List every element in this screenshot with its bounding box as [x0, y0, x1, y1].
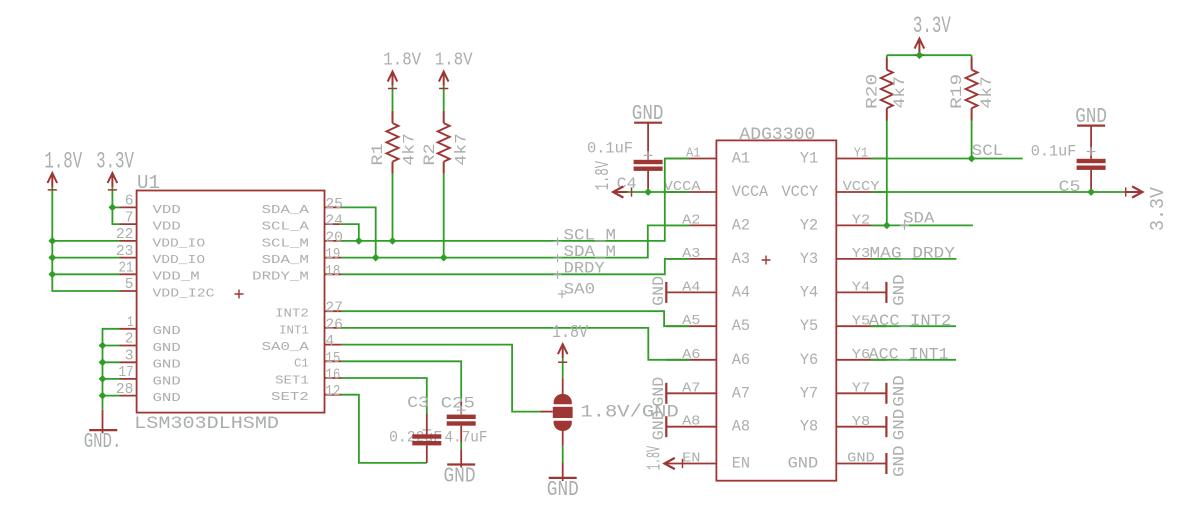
supply 3.3V arrow (top) [915, 39, 925, 53]
supply 3.3V label (left) [96, 149, 134, 175]
svg-text:A4: A4 [682, 279, 700, 295]
ground flag (A side) [665, 383, 667, 404]
U2 pin Y5 [800, 313, 887, 335]
wire INT2 to A5 [342, 311, 690, 326]
svg-text:A3: A3 [732, 250, 750, 268]
ground label (SJ) [547, 479, 579, 502]
U2 pin A2 [666, 212, 750, 234]
svg-text:GND: GND [891, 274, 909, 306]
wire R2 bottom [443, 174, 445, 258]
U1 pin 17 (GND) [119, 365, 181, 388]
C5 value 0.1uF [1031, 143, 1077, 161]
U1 value LSM303DLHSMD [134, 415, 279, 434]
ground flag label (Y side) [891, 375, 909, 407]
svg-text:15: 15 [325, 351, 340, 367]
svg-text:Y1: Y1 [800, 150, 818, 168]
R2 value 4k7 [452, 133, 470, 165]
svg-text:4: 4 [325, 334, 334, 350]
ground flag (Y side) [885, 383, 887, 404]
supply 1.8V label (SJ) [552, 323, 588, 343]
U2 origin cross [762, 256, 771, 265]
wire MAG_DRDY (Y3) [871, 258, 957, 260]
C3 label [407, 394, 429, 412]
svg-text:VDD_IO: VDD_IO [153, 236, 206, 250]
wire R19 top [971, 55, 973, 57]
svg-text:4k7: 4k7 [891, 76, 909, 108]
wire SCL_M [342, 159, 690, 241]
wire 1.8V rail [52, 187, 119, 291]
svg-text:VDD_M: VDD_M [153, 270, 200, 284]
junction GND/pin17 [99, 375, 107, 383]
svg-text:Y5: Y5 [800, 317, 818, 335]
U1 pin 24 (SCL_A) [262, 214, 344, 234]
C3 origin cross [422, 426, 431, 435]
supply 1.8V label (left) [44, 149, 82, 175]
R20 label [864, 74, 882, 109]
svg-text:GND: GND [153, 391, 181, 405]
label SDA_M origin cross [554, 254, 562, 262]
svg-text:GND.: GND. [84, 431, 122, 454]
svg-text:DRDY: DRDY [564, 259, 605, 277]
svg-text:1.8V: 1.8V [435, 50, 473, 70]
capacitor C4 [634, 123, 663, 192]
ground symbol (C5) [1077, 124, 1105, 126]
label SCL_M origin cross [554, 238, 562, 246]
label DRDY [564, 259, 605, 277]
U1 origin cross [235, 290, 244, 299]
R20 value 4k7 [891, 76, 909, 108]
U1 pin 3 (GND) [120, 349, 181, 372]
svg-text:27: 27 [325, 301, 343, 317]
wire SCL (Y1) [871, 158, 1023, 160]
svg-text:C5: C5 [1059, 178, 1081, 196]
ground flag (Y side) [885, 416, 887, 437]
svg-text:VDD_IO: VDD_IO [153, 253, 206, 267]
svg-text:ADG3300: ADG3300 [739, 126, 815, 145]
svg-text:DRDY_M: DRDY_M [252, 270, 309, 284]
svg-text:3.3V: 3.3V [96, 149, 134, 175]
R19 value 4k7 [978, 76, 996, 108]
U2 pin Y3 [800, 246, 887, 268]
svg-text:SDA_A: SDA_A [262, 203, 310, 217]
svg-text:Y8: Y8 [800, 418, 818, 436]
U2 pin Y6 [800, 347, 887, 369]
svg-text:19: 19 [325, 247, 340, 263]
label SDA [903, 210, 935, 228]
svg-text:LSM303DLHSMD: LSM303DLHSMD [134, 415, 279, 434]
U2 pin A5 [666, 313, 750, 335]
svg-text:ACC_INT2: ACC_INT2 [869, 312, 952, 330]
C4 label [617, 175, 637, 193]
svg-text:SCL: SCL [972, 142, 1003, 160]
junction 1.8V/pin22 [48, 237, 56, 245]
U1 pin 18 (DRDY_M) [252, 264, 341, 284]
wire R20 top [886, 55, 888, 57]
U1 pin 7 (VDD) [120, 210, 181, 233]
svg-text:17: 17 [119, 365, 134, 381]
svg-text:Y2: Y2 [852, 213, 870, 229]
svg-text:R2: R2 [421, 143, 439, 165]
svg-text:Y4: Y4 [800, 283, 818, 301]
svg-text:1: 1 [127, 315, 133, 331]
svg-text:A8: A8 [732, 418, 750, 436]
svg-text:1.8V: 1.8V [383, 50, 421, 70]
capacitor C3 [412, 414, 441, 463]
supply 1.8V arrow (SJ) [558, 344, 568, 358]
supply 3.3V label (top) [913, 13, 951, 39]
U2 pin VCCA [664, 179, 769, 201]
wire GND rail [103, 329, 120, 410]
svg-text:GND: GND [650, 276, 668, 306]
junction R1 [389, 237, 397, 245]
svg-text:Y3: Y3 [852, 246, 870, 262]
supply 1.8V label (R2) [435, 50, 473, 70]
svg-text:GND: GND [891, 375, 909, 407]
wire C1 to C25 [342, 361, 462, 402]
svg-text:SDA_M: SDA_M [262, 253, 309, 267]
ground label (C25) [444, 465, 476, 488]
svg-text:INT2: INT2 [275, 307, 309, 321]
svg-text:SA0_A: SA0_A [262, 340, 310, 354]
svg-text:C4: C4 [617, 175, 637, 193]
U2 pin A1 [666, 146, 750, 168]
svg-text:Y4: Y4 [852, 280, 870, 296]
svg-text:R1: R1 [369, 143, 387, 165]
svg-text:SCL_M: SCL_M [564, 227, 617, 245]
U2 pin Y2 [800, 213, 887, 235]
svg-text:GND: GND [547, 479, 579, 502]
svg-text:SET2: SET2 [271, 390, 309, 404]
wire SJ top [558, 358, 567, 397]
R19 label [948, 74, 966, 109]
U1 pin 26 (INT1) [279, 317, 343, 337]
svg-text:Y7: Y7 [800, 384, 818, 402]
ground flag (A side) [665, 416, 667, 437]
svg-text:25: 25 [325, 197, 343, 213]
U2 pin Y4 [800, 280, 887, 302]
U2 pin A8 [666, 414, 750, 436]
U2 pin Y7 [800, 380, 887, 402]
svg-text:6: 6 [125, 194, 134, 210]
svg-text:A7: A7 [682, 380, 700, 396]
U2 pin Y1 [800, 146, 887, 168]
svg-text:0.1uF: 0.1uF [587, 140, 633, 158]
svg-text:4k7: 4k7 [401, 133, 419, 165]
svg-text:R19: R19 [948, 74, 966, 109]
U2 name ADG3300 [739, 126, 815, 145]
svg-text:VCCY: VCCY [782, 183, 819, 201]
U2 pin A3 [666, 246, 750, 268]
wire VCCY [871, 187, 1126, 196]
svg-text:GND: GND [444, 465, 476, 488]
ground flag label (Y side) [891, 409, 909, 441]
wire SDA (Y2) [871, 224, 973, 226]
svg-text:2: 2 [125, 332, 134, 348]
svg-text:18: 18 [325, 264, 340, 280]
U2 pin A4 [666, 279, 750, 301]
wire DRDY [342, 259, 690, 274]
svg-text:R20: R20 [864, 74, 882, 109]
ground flag (A side) [665, 282, 667, 303]
C4 origin cross [644, 151, 653, 160]
ground flag label (Y side) [891, 446, 909, 478]
svg-text:1.8V: 1.8V [592, 161, 614, 191]
U1 pin 25 (SDA_A) [262, 197, 343, 217]
solder jumper SJ1 pad 1 [554, 394, 572, 404]
wire SET1 to C3 [342, 378, 427, 414]
junction 3.3V/pin6 [109, 204, 117, 212]
junction R19/SCL [968, 155, 976, 163]
ground symbol (C25) [447, 463, 475, 465]
svg-text:VCCA: VCCA [732, 183, 769, 201]
ground symbol (C4) [634, 122, 662, 124]
ground symbol (U1 left) [89, 410, 117, 433]
U1 pin 27 (INT2) [275, 301, 343, 321]
svg-text:26: 26 [325, 317, 343, 333]
svg-text:Y7: Y7 [852, 380, 870, 396]
label SDA origin cross [900, 221, 909, 230]
IC U1 box [137, 191, 325, 413]
wire ACC_INT2 (Y5) [871, 325, 957, 327]
svg-text:24: 24 [325, 214, 343, 230]
svg-text:GND: GND [153, 324, 181, 338]
C25 value 4.7uF [445, 429, 488, 447]
U2 pin A7 [666, 380, 750, 402]
svg-text:VDD: VDD [153, 220, 181, 234]
junction GND/pin3 [99, 358, 107, 366]
svg-text:Y8: Y8 [852, 414, 870, 430]
label SA0 [564, 281, 596, 299]
wire R1 bottom [392, 174, 394, 241]
wire INT1 to A6 [342, 328, 690, 360]
svg-text:EN: EN [732, 455, 750, 473]
C25 label [441, 394, 475, 412]
supply 1.8V arrow (VCCA) [613, 186, 627, 197]
U1 pin 22 (VDD_IO) [116, 227, 205, 250]
C3 value 0.22uF [389, 429, 442, 447]
label MAG_DRDY [870, 244, 956, 262]
svg-text:GND: GND [891, 446, 909, 478]
svg-text:Y5: Y5 [852, 313, 870, 329]
svg-text:A2: A2 [732, 216, 750, 234]
svg-text:SA0: SA0 [564, 281, 596, 299]
ground flag label (A side) [650, 410, 668, 440]
C25 origin cross [457, 406, 466, 415]
svg-text:MAG_DRDY: MAG_DRDY [870, 244, 956, 262]
R1 value 4k7 [401, 133, 419, 165]
supply 1.8V label (VCCA) [592, 161, 614, 191]
svg-text:4.7uF: 4.7uF [445, 429, 488, 447]
svg-text:A5: A5 [732, 317, 750, 335]
junction GND/pin28 [99, 392, 107, 400]
svg-text:Y2: Y2 [800, 216, 818, 234]
wire R2 top [439, 86, 448, 111]
svg-text:Y6: Y6 [852, 347, 870, 363]
U1 pin 4 (SA0_A) [262, 334, 342, 354]
junction 1.8V/pin21 [48, 270, 56, 278]
junction SCL_A/SCL_M [355, 237, 363, 245]
svg-text:VDD_I2C: VDD_I2C [153, 286, 215, 300]
label SCL_M [564, 227, 617, 245]
svg-text:5: 5 [125, 277, 134, 293]
junction R2 [440, 254, 448, 262]
U1 pin 23 (VDD_IO) [116, 244, 205, 267]
supply 1.8V arrow (left) [48, 173, 58, 187]
U1 pin 16 (SET1) [275, 368, 342, 388]
U2 pin A6 [666, 347, 750, 369]
svg-text:SCL_M: SCL_M [262, 236, 309, 250]
label ACC_INT1 [869, 346, 949, 364]
U1 pin 12 (SET2) [271, 384, 342, 404]
supply 1.8V tick (left) [48, 189, 57, 191]
svg-text:21: 21 [119, 261, 134, 277]
svg-text:20: 20 [325, 230, 343, 246]
R1 label [369, 143, 387, 165]
resistor R20 4k7 [881, 58, 893, 121]
svg-text:A8: A8 [682, 414, 700, 430]
junction 1.8V/pin23 [48, 254, 56, 262]
supply 3.3V tick (left) [108, 189, 117, 191]
wire SET2 to C3 bottom [342, 395, 427, 463]
U1 pin 2 (GND) [120, 332, 181, 355]
junction SDA_A/SDA_M [372, 254, 380, 262]
solder jumper SJ1 pad 3 [554, 421, 572, 431]
junction R20/SDA [883, 222, 891, 230]
capacitor C5 [1077, 126, 1106, 192]
U1 pin 21 (VDD_M) [119, 261, 200, 284]
ground flag label (A side) [650, 276, 668, 306]
U1 pin 20 (SCL_M) [262, 230, 343, 250]
wire R1 top [388, 86, 397, 111]
wire SJ bottom [562, 429, 564, 481]
label SA0 origin cross [558, 290, 566, 298]
label SDA_M [564, 243, 617, 261]
supply 3.3V arrow (left) [108, 173, 118, 187]
svg-text:ACC_INT1: ACC_INT1 [869, 346, 949, 364]
wire R19 bottom (SCL) [971, 121, 973, 159]
C5 origin cross [1087, 147, 1096, 156]
wire VCCA [628, 187, 690, 196]
C5 label [1059, 178, 1081, 196]
svg-text:Y1: Y1 [854, 146, 868, 162]
supply 1.8V label (R1) [383, 50, 421, 70]
R2 label [421, 143, 439, 165]
svg-text:EN: EN [682, 451, 700, 467]
junction C4/VCCA [644, 188, 652, 196]
wire SCL_A jog [342, 224, 359, 241]
ground symbol (SJ) [549, 477, 577, 479]
junction 3.3V tee [916, 51, 924, 59]
U1 pin 6 (VDD) [120, 194, 181, 217]
svg-text:Y3: Y3 [800, 250, 818, 268]
wire SA0_A to jumper [342, 345, 542, 412]
solder jumper SJ1 pad 2 (middle) [541, 407, 573, 418]
supply 1.8V arrow (R1) [388, 72, 398, 86]
svg-text:GND: GND [891, 409, 909, 441]
U2 pin EN [666, 451, 750, 473]
svg-text:Y6: Y6 [800, 351, 818, 369]
wire 3.3V rail [112, 187, 119, 224]
svg-text:A7: A7 [732, 384, 750, 402]
capacitor C25 [447, 402, 476, 468]
ground flag label (A side) [650, 377, 668, 407]
wire 3.3V tee [887, 53, 972, 56]
ground flag (Y side) [885, 282, 887, 303]
svg-text:4k7: 4k7 [452, 133, 470, 165]
svg-text:GND: GND [153, 358, 181, 372]
ground label (U1 left) [84, 431, 122, 454]
svg-text:A6: A6 [732, 351, 750, 369]
supply 1.8V arrow (R2) [439, 72, 449, 86]
svg-text:12: 12 [325, 384, 340, 400]
svg-text:GND: GND [847, 451, 875, 467]
U2 pin GND [788, 451, 887, 473]
U1 pin 19 (SDA_M) [262, 247, 342, 267]
supply 1.8V arrow (EN) [665, 458, 683, 469]
supply 3.3V label (VCCY) [1147, 187, 1169, 231]
SJ1 label 1.8V/GND [580, 402, 678, 422]
ground label (C4) [632, 103, 664, 126]
label SCL [972, 142, 1003, 160]
svg-text:GND: GND [153, 341, 181, 355]
svg-text:1.8V: 1.8V [644, 446, 666, 470]
label ACC_INT2 [869, 312, 952, 330]
resistor R2 4k7 [438, 111, 450, 174]
U1 reference label [137, 172, 160, 194]
svg-text:SCL_A: SCL_A [262, 220, 310, 234]
svg-text:1.8V: 1.8V [44, 149, 82, 175]
svg-text:VDD: VDD [153, 203, 181, 217]
svg-text:C3: C3 [407, 394, 429, 412]
ground label (C5) [1075, 106, 1107, 129]
svg-text:C1: C1 [294, 357, 309, 371]
wire SDA_A jog [342, 207, 376, 257]
ground flag label (Y side) [891, 274, 909, 306]
wire R20 bottom (SDA) [886, 121, 888, 226]
U1 pin 1 (GND) [120, 315, 181, 338]
U2 pin VCCY [782, 179, 887, 201]
U1 pin 28 (GND) [116, 382, 181, 405]
svg-text:INT1: INT1 [279, 323, 309, 337]
supply 3.3V arrow (VCCY) [1126, 186, 1142, 197]
wire ACC_INT1 (Y6) [871, 359, 957, 361]
U2 pin Y8 [800, 414, 887, 436]
wire SDA_M [342, 225, 690, 257]
junction GND/pin2 [99, 342, 107, 350]
svg-text:A1: A1 [732, 150, 750, 168]
svg-text:4k7: 4k7 [978, 76, 996, 108]
resistor R19 4k7 [966, 58, 978, 121]
C4 value 0.1uF [587, 140, 633, 158]
IC U2 box (ADG3300) [716, 140, 836, 480]
svg-text:3: 3 [125, 349, 134, 365]
svg-text:3.3V: 3.3V [1147, 187, 1169, 231]
svg-text:GND: GND [788, 455, 819, 473]
label DRDY origin cross [554, 271, 562, 279]
svg-text:3.3V: 3.3V [913, 13, 951, 39]
supply 1.8V label (EN) [644, 446, 666, 470]
U1 pin 5 (VDD_I2C) [120, 277, 215, 300]
U1 pin 15 (C1) [294, 351, 342, 371]
ground flag (Y side) [885, 453, 887, 474]
svg-text:16: 16 [325, 368, 340, 384]
svg-text:0.1uF: 0.1uF [1031, 143, 1077, 161]
svg-text:A4: A4 [732, 283, 750, 301]
svg-text:1.8V/GND: 1.8V/GND [580, 402, 678, 422]
svg-text:GND: GND [153, 374, 181, 388]
svg-text:SET1: SET1 [275, 373, 309, 387]
junction C5/VCCY [1087, 188, 1095, 196]
